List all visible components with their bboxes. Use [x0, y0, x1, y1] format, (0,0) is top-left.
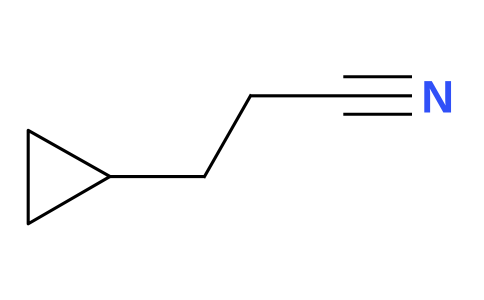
svg-text:N: N [421, 71, 454, 122]
bond ring-CH2 (horizontal) [110, 175, 205, 178]
triple bond lower line [343, 113, 412, 116]
bond CH2-C / nitrile middle line [251, 94, 413, 97]
triple bond upper line [343, 75, 412, 78]
cyclopropane ring [28, 130, 110, 223]
bond CH2-CH2 (diagonal) [205, 96, 251, 177]
